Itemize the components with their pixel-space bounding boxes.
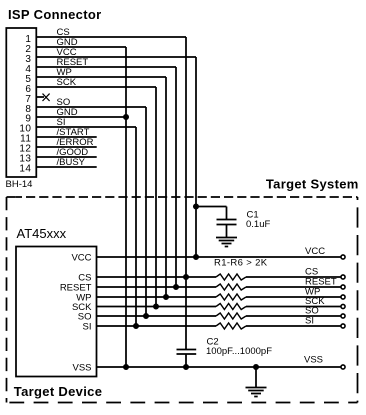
ground symbol under C1 [216,238,237,247]
target system dashed border top [16,196,358,198]
junction SO drop on SO row [144,314,148,318]
wire SCK pin6 horizontal [36,86,156,88]
junction GND pin9 [124,115,128,119]
junction RESET drop on RESET row [174,285,178,289]
target system dashed border bottom [7,402,358,404]
wire VSS row [97,366,341,368]
terminal circle WP [341,295,345,299]
junction VCC drop on VCC row [194,255,198,259]
svg-text:VSS: VSS [304,355,323,366]
terminal circle RESET [341,285,345,289]
wire C1 bottom lead [226,225,228,238]
wire C1 tap horizontal [196,206,227,208]
no-connect X mark pin7 [43,94,50,101]
junction WP drop on WP row [164,295,168,299]
wire GND pin2 horizontal [36,46,126,48]
svg-text:R1-R6 > 2K: R1-R6 > 2K [214,258,268,269]
wire SCK row left of resistor [97,306,217,308]
terminal circle SO [341,314,345,318]
wire SO vertical drop [145,107,147,316]
wire VCC vertical drop to VCC row [195,57,197,257]
terminal circle VCC [341,255,345,259]
wire SCK vertical drop [155,87,157,307]
resistor R2 zigzag RESET [216,284,246,290]
connector J1 body BH-14 [6,28,36,177]
wire GND pin9 horizontal to GND vertical [36,116,126,118]
terminal circle SCK [341,304,345,308]
junction GND drop on VSS row [124,365,128,369]
resistor R4 zigzag SCK [216,304,246,310]
target system dashed border right [357,197,359,403]
wire RESET row left of resistor [97,286,217,288]
terminal circle CS [341,275,345,279]
resistor R5 zigzag SO [216,313,246,319]
junction C2 bottom on VSS row [184,365,188,369]
junction ground tap on VSS row [254,365,258,369]
wire /START pin11 stub [36,136,96,138]
wire GND vertical drop to VSS row [125,47,127,367]
wire SI row left of resistor [97,325,217,327]
wire SCK row right of resistor [246,306,341,308]
svg-text:100pF...1000pF: 100pF...1000pF [206,346,272,357]
wire RESET row right of resistor [246,286,341,288]
junction SI drop on SI row [134,324,138,328]
wire RESET pin4 horizontal [36,66,176,68]
wire SI vertical drop [135,127,137,326]
terminal circle VSS [341,365,345,369]
wire WP vertical drop [165,77,167,297]
svg-text:SI: SI [83,322,92,333]
wire SO row right of resistor [246,315,341,317]
wire CS row left of resistor [97,276,217,278]
target system dashed border left [6,197,8,403]
svg-text:VCC: VCC [305,246,325,257]
wire SI pin10 horizontal [36,126,136,128]
wire /GOOD pin13 stub [36,156,96,158]
svg-text:0.1uF: 0.1uF [246,219,270,230]
svg-text:ISP Connector: ISP Connector [8,7,102,22]
wire VCC pin3 horizontal [36,56,196,58]
wire CS row right of resistor [246,276,341,278]
wire WP row right of resistor [246,296,341,298]
wire WP pin5 horizontal [36,76,166,78]
svg-text:Target System: Target System [266,177,359,192]
junction C1 tap on VCC vertical [194,204,198,208]
wire SO row left of resistor [97,315,217,317]
wire RESET vertical drop [175,67,177,287]
resistor R1 zigzag CS [216,274,246,280]
resistor R6 zigzag SI [216,323,246,329]
svg-text:AT45xxx: AT45xxx [17,226,67,241]
svg-text:VCC: VCC [71,252,91,263]
svg-text:Target Device: Target Device [14,384,102,399]
svg-text:BH-14: BH-14 [6,179,33,190]
resistor R3 zigzag WP [216,294,246,300]
junction CS drop on CS row [184,275,188,279]
wire C2 bottom lead [185,354,187,367]
svg-text:SI: SI [305,315,314,326]
pin 7 stub no-connect [36,96,44,98]
target system dashed border top corner dash [7,196,16,198]
wire WP row left of resistor [97,296,217,298]
terminal circle SI [341,324,345,328]
wire SO pin8 horizontal [36,106,146,108]
ground symbol under VSS row [246,388,267,397]
wire VCC row [97,256,341,258]
wire SI row right of resistor [246,325,341,327]
junction SCK drop on SCK row [154,304,158,308]
wire CS vertical drop to CS row and C2 [185,37,187,350]
wire ground stem under VSS row [255,367,257,388]
wire /ERROR pin12 stub [36,146,96,148]
wire C1 top lead [226,207,228,220]
svg-text:VSS: VSS [72,363,91,374]
wire CS pin1 horizontal [36,36,186,38]
chip U1 AT45xxx body [16,247,97,377]
capacitor C2 plates [177,350,197,355]
wire /BUSY pin14 stub [36,166,96,168]
svg-text:14: 14 [19,163,31,174]
capacitor C1 plates [217,220,237,225]
